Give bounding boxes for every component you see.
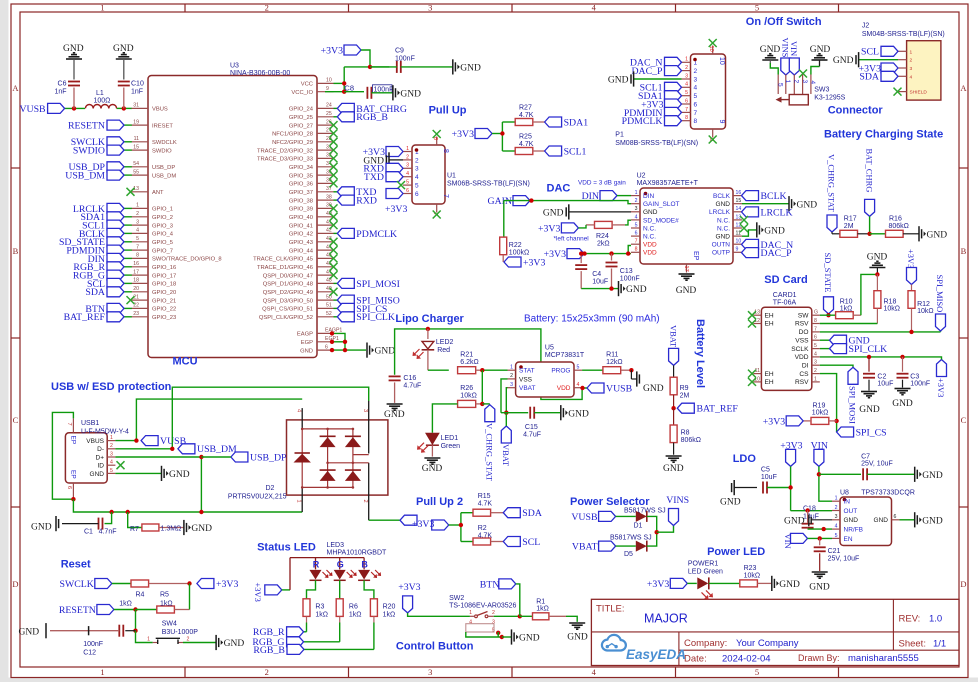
svg-text:100kΩ: 100kΩ: [509, 250, 529, 257]
ground GND (C16): [384, 404, 405, 420]
node DP tap: [199, 510, 203, 514]
resistor R2: [473, 525, 503, 545]
svg-text:TS-1086EV-AR03526: TS-1086EV-AR03526: [449, 603, 516, 610]
svg-text:U2: U2: [637, 172, 646, 179]
power flag +3V3 (pull up): [452, 129, 492, 140]
svg-text:2M: 2M: [844, 223, 854, 230]
svg-text:17: 17: [133, 269, 139, 275]
svg-text:R9: R9: [680, 385, 689, 392]
svg-text:11: 11: [134, 136, 139, 142]
svg-text:GND: GND: [716, 201, 731, 208]
svg-text:2kΩ: 2kΩ: [597, 241, 610, 248]
no-connect U3 pin: [330, 246, 338, 254]
svg-text:GPIO_44: GPIO_44: [289, 248, 314, 254]
label USB w/ ESD protection: [51, 381, 172, 393]
net flag DIN (U3 left): [88, 253, 132, 264]
svg-text:C4: C4: [592, 271, 601, 278]
svg-text:D: D: [12, 579, 18, 589]
svg-text:NR/FB: NR/FB: [844, 527, 864, 534]
svg-text:+3V3: +3V3: [523, 257, 545, 268]
no-connect USB1 ID: [117, 461, 125, 469]
svg-text:VDD = 3 dB gain: VDD = 3 dB gain: [578, 180, 626, 187]
net flag VBAT (level): [668, 325, 678, 365]
wire VIN down: [819, 466, 832, 501]
svg-text:PROG: PROG: [551, 368, 570, 375]
svg-text:TF-06A: TF-06A: [773, 300, 797, 307]
svg-text:GND: GND: [191, 524, 212, 534]
node DM: [170, 447, 174, 451]
node LED2 top: [426, 327, 430, 331]
ground GND flag (R7): [184, 520, 212, 535]
svg-text:MCU: MCU: [173, 356, 198, 368]
svg-text:SDA: SDA: [85, 287, 105, 298]
svg-text:R11: R11: [606, 352, 618, 359]
net flag DIN (U2): [582, 191, 631, 202]
power flag +3V3 (pullup2): [432, 520, 449, 530]
svg-text:6: 6: [406, 188, 409, 194]
svg-text:RSV: RSV: [795, 379, 809, 386]
svg-text:GND: GND: [519, 634, 540, 644]
svg-text:1: 1: [110, 435, 113, 441]
svg-text:REV:: REV:: [899, 614, 921, 625]
net flag GND (card VSS): [820, 335, 870, 346]
svg-text:C21: C21: [828, 548, 841, 555]
node pullup: [500, 131, 504, 135]
svg-text:SPI_CLK: SPI_CLK: [849, 344, 888, 355]
svg-text:4: 4: [694, 85, 698, 92]
node CS-R19: [834, 419, 838, 423]
svg-text:3: 3: [510, 382, 513, 388]
power flag +3V3 (reset): [197, 579, 239, 590]
led POWER1 labels: [688, 561, 723, 576]
svg-text:4.7nF: 4.7nF: [99, 529, 117, 536]
svg-text:R5: R5: [160, 592, 169, 599]
net flag BAT_REF: [677, 403, 738, 414]
svg-text:EH: EH: [765, 379, 774, 386]
connector J2 body: [862, 23, 945, 101]
svg-text:GPIO_22: GPIO_22: [152, 307, 176, 313]
svg-text:GND: GND: [568, 409, 589, 419]
net flag SCL (pullup2): [503, 537, 540, 548]
svg-text:4: 4: [415, 174, 419, 181]
svg-text:R26: R26: [460, 385, 473, 392]
power flag +3V3 (P1): [641, 99, 681, 110]
svg-text:CARD1: CARD1: [773, 292, 797, 299]
svg-text:100nF: 100nF: [395, 56, 415, 63]
label Status LED: [257, 542, 316, 554]
connector U1 pins: [403, 137, 449, 216]
svg-text:1: 1: [136, 203, 139, 209]
svg-text:VSS: VSS: [519, 376, 533, 383]
svg-text:GND: GND: [643, 209, 658, 216]
net flag DAC_N (U2): [742, 239, 794, 250]
ground GND flag (U8 pin6): [915, 512, 943, 527]
svg-text:V_CHRG_STAT: V_CHRG_STAT: [827, 154, 837, 213]
svg-text:VINS: VINS: [666, 495, 689, 506]
svg-text:GND: GND: [797, 200, 818, 210]
led LED2 (red): [413, 329, 454, 370]
svg-text:6: 6: [685, 98, 688, 104]
svg-text:2: 2: [910, 58, 913, 64]
svg-text:OUTN: OUTN: [712, 242, 731, 249]
svg-text:B: B: [361, 560, 368, 570]
svg-text:+3V3: +3V3: [321, 45, 343, 56]
svg-text:GND: GND: [643, 384, 664, 394]
ldo U8 pins: [832, 496, 900, 543]
no-connect U3 pin: [330, 171, 338, 179]
svg-text:806kΩ: 806kΩ: [889, 223, 909, 230]
svg-text:Battery: 15x25x3mm (90 mAh): Battery: 15x25x3mm (90 mAh): [524, 314, 660, 325]
capacitor C4: [575, 251, 608, 288]
resistor R16: [870, 216, 919, 238]
svg-text:GND: GND: [663, 464, 684, 474]
svg-text:5: 5: [415, 183, 419, 190]
svg-text:6: 6: [894, 514, 897, 520]
label Lipo Charger: [395, 313, 464, 325]
ground GND flag (C1): [31, 516, 59, 533]
label Reset: [61, 559, 91, 571]
svg-text:1: 1: [406, 146, 409, 152]
svg-text:GND: GND: [460, 64, 481, 74]
resistor R12: [908, 285, 934, 332]
svg-text:GPIO_41: GPIO_41: [289, 223, 313, 229]
svg-text:CS: CS: [799, 371, 809, 378]
svg-text:VUSB: VUSB: [19, 104, 46, 115]
node EN-C21: [818, 536, 822, 540]
label Battery Charging State: [824, 129, 943, 141]
svg-text:Connector: Connector: [828, 105, 884, 117]
ground GND flag (J2 pin2): [833, 52, 898, 67]
svg-text:10kΩ: 10kΩ: [744, 573, 761, 580]
net flag SPI_CLK (U3 right): [334, 312, 395, 323]
svg-text:55: 55: [133, 169, 139, 175]
svg-text:10: 10: [326, 78, 332, 84]
svg-text:23: 23: [133, 311, 139, 317]
power flag +3V3 (R19): [763, 416, 803, 427]
wire DM net: [115, 387, 368, 449]
svg-text:D1: D1: [634, 523, 643, 530]
capacitor C16: [389, 375, 422, 403]
svg-text:LDO: LDO: [733, 453, 757, 465]
no-connect U2 pin13: [740, 216, 748, 224]
capacitor C13: [606, 254, 640, 289]
no-connect U3 pin: [330, 163, 338, 171]
svg-text:GAIN: GAIN: [488, 196, 513, 207]
svg-text:6: 6: [415, 191, 419, 198]
svg-text:4: 4: [406, 171, 409, 177]
node EP bottom: [71, 497, 75, 501]
svg-text:+3V3: +3V3: [647, 579, 669, 590]
svg-text:SCL: SCL: [522, 537, 540, 548]
svg-text:+3V3: +3V3: [906, 249, 916, 268]
svg-text:NFC2/GPIO_29: NFC2/GPIO_29: [272, 140, 313, 146]
svg-text:BAT_CHRG: BAT_CHRG: [864, 149, 874, 193]
svg-text:9: 9: [718, 120, 725, 124]
svg-text:VDD: VDD: [795, 354, 809, 361]
svg-text:SPI_CS: SPI_CS: [856, 427, 887, 438]
svg-text:4: 4: [814, 351, 817, 357]
svg-text:GND: GND: [922, 471, 943, 481]
net flag DAC_N (P1): [630, 57, 682, 68]
net flag SPI_CLK (card): [820, 344, 887, 355]
wire U2 GND11: [742, 230, 756, 236]
svg-text:GPIO_17: GPIO_17: [152, 273, 176, 279]
svg-text:QSPI_D1/GPIO_48: QSPI_D1/GPIO_48: [263, 282, 313, 288]
svg-text:VINS: VINS: [780, 38, 790, 58]
node BAT_REF: [671, 406, 675, 410]
svg-text:C5: C5: [761, 467, 770, 474]
net flag VUSB: [19, 103, 64, 114]
svg-text:100nF: 100nF: [83, 641, 103, 648]
svg-text:C7: C7: [861, 453, 870, 460]
svg-text:GND: GND: [31, 523, 52, 533]
svg-text:1: 1: [147, 637, 150, 643]
svg-text:On /Off Switch: On /Off Switch: [746, 16, 822, 28]
dac U2 body: [637, 172, 733, 264]
svg-text:Battery Charging State: Battery Charging State: [824, 129, 943, 141]
svg-text:5: 5: [777, 83, 784, 87]
no-connect U2 pin12: [740, 224, 748, 232]
net flag PDMDIN (P1): [624, 107, 682, 118]
wire led3 anode rail: [282, 558, 364, 590]
svg-text:1.3MΩ: 1.3MΩ: [161, 526, 182, 533]
svg-text:R21: R21: [460, 351, 473, 358]
ground GND flag (C7): [915, 467, 943, 482]
svg-text:N.C.: N.C.: [643, 234, 656, 241]
svg-text:GND: GND: [892, 399, 913, 409]
node DP: [199, 455, 203, 459]
net flag SPI_CS (U3 right): [334, 303, 388, 314]
svg-text:GND: GND: [720, 498, 741, 508]
svg-text:EH: EH: [765, 312, 774, 319]
svg-text:4: 4: [809, 81, 816, 85]
svg-text:100nF: 100nF: [910, 381, 930, 388]
svg-text:+3V3: +3V3: [763, 416, 785, 427]
svg-text:3: 3: [136, 219, 139, 225]
svg-text:RSV: RSV: [795, 321, 809, 328]
svg-text:GND: GND: [764, 227, 785, 237]
switch SW2: [466, 610, 495, 634]
svg-text:SWDCLK: SWDCLK: [152, 140, 177, 146]
net flag RESETN (U3 left): [68, 120, 132, 131]
label LDO: [733, 453, 757, 465]
svg-text:C13: C13: [620, 268, 633, 275]
svg-text:4: 4: [110, 460, 113, 466]
resistor R24: [586, 220, 631, 247]
svg-text:8: 8: [814, 318, 817, 324]
svg-text:SDA: SDA: [859, 72, 879, 83]
ground GND flag (U3 bottom): [367, 343, 395, 358]
svg-text:GND: GND: [90, 471, 105, 478]
net flag SWCLK (U3 left): [71, 137, 132, 148]
svg-text:1/1: 1/1: [933, 639, 946, 650]
net flag SPI_MISO (card): [935, 275, 945, 332]
svg-text:7: 7: [442, 194, 449, 198]
svg-text:ID: ID: [98, 463, 105, 470]
led POWER1: [687, 577, 739, 599]
svg-text:7: 7: [694, 110, 698, 117]
power flag +3V3 (U2 VDD): [544, 249, 584, 260]
svg-text:R7: R7: [130, 526, 139, 533]
net flag VBAT (lipo): [501, 413, 511, 467]
svg-text:GPIO_43: GPIO_43: [289, 240, 313, 246]
ground GND flag (U2 pin3): [543, 204, 631, 219]
svg-text:GPIO_39: GPIO_39: [289, 207, 313, 213]
wire C4-C13 gnd: [581, 286, 618, 290]
svg-text:3: 3: [415, 166, 419, 173]
svg-text:R22: R22: [509, 242, 522, 249]
svg-text:Sheet:: Sheet:: [899, 639, 926, 650]
svg-text:10kΩ: 10kΩ: [884, 305, 901, 312]
net flag BAT_CHRG (divider): [864, 149, 874, 234]
svg-text:OUTP: OUTP: [712, 250, 730, 257]
ground GND flag (R23): [772, 576, 800, 591]
power flag +3V3 (LDO): [780, 441, 802, 467]
label Pull Up 2: [416, 496, 463, 508]
wire VDD row: [820, 356, 940, 358]
wire pullup2: [449, 513, 474, 542]
svg-text:1kΩ: 1kΩ: [383, 612, 396, 619]
net flag RXD (U3 right): [334, 195, 377, 206]
svg-text:GND: GND: [833, 56, 854, 66]
capacitor C12: [50, 625, 136, 657]
svg-text:G: G: [337, 560, 344, 570]
net flag VUSB (selector): [571, 511, 615, 522]
no-connect U3 pin: [330, 138, 338, 146]
resistor R9: [670, 365, 689, 408]
svg-text:51: 51: [326, 303, 332, 309]
svg-text:TPS73733DCQR: TPS73733DCQR: [861, 489, 915, 496]
svg-text:18: 18: [133, 278, 139, 284]
svg-text:5: 5: [685, 90, 688, 96]
svg-text:2: 2: [265, 667, 269, 677]
svg-text:1: 1: [296, 500, 302, 503]
power flag +3V3 (card VDD): [936, 357, 946, 398]
svg-text:+3V3: +3V3: [398, 582, 420, 593]
no-connect U3 pin: [330, 238, 338, 246]
svg-text:2: 2: [362, 500, 368, 503]
svg-text:25: 25: [326, 111, 332, 117]
svg-text:U8: U8: [840, 489, 849, 496]
svg-text:1: 1: [635, 190, 638, 196]
svg-text:2: 2: [415, 157, 419, 164]
svg-text:GPIO_1: GPIO_1: [152, 207, 173, 213]
svg-text:RXD: RXD: [356, 196, 377, 207]
svg-text:2: 2: [406, 154, 409, 160]
wire VDD rail: [584, 246, 631, 254]
svg-text:GPIO_38: GPIO_38: [289, 198, 313, 204]
ground GND flag (C5): [720, 480, 757, 508]
label Battery Level: [694, 319, 706, 388]
svg-text:3: 3: [910, 66, 913, 72]
svg-text:3: 3: [694, 76, 698, 83]
capacitor C7: [819, 453, 914, 480]
node VDD-C2: [867, 355, 871, 359]
no-connect U3 pin: [330, 263, 338, 271]
svg-text:EAGP: EAGP: [297, 332, 313, 338]
svg-text:SD_STATE: SD_STATE: [823, 253, 833, 293]
diode D1: [616, 508, 666, 533]
resistor R19: [803, 403, 836, 425]
svg-text:R19: R19: [813, 403, 826, 410]
no-connect U3 pin: [330, 146, 338, 154]
wire U8 gnd6: [900, 519, 915, 521]
svg-text:U-F-M5DW-Y-4: U-F-M5DW-Y-4: [81, 428, 129, 435]
svg-text:EP: EP: [692, 251, 699, 261]
power flag +3V3 (D2): [400, 515, 434, 530]
ground GND (R1): [567, 623, 588, 643]
net flag SWCLK (reset): [60, 579, 112, 590]
svg-text:TRACE_D3/GPIO_33: TRACE_D3/GPIO_33: [257, 157, 313, 163]
svg-text:GND: GND: [300, 348, 313, 354]
svg-text:VBAT: VBAT: [501, 444, 511, 467]
power flag +3V3 (U1 pin6): [385, 189, 407, 216]
svg-text:SCLK: SCLK: [791, 346, 809, 353]
ground GND (C3): [892, 389, 913, 410]
svg-text:8: 8: [694, 118, 698, 125]
connector P1 pins: [682, 46, 726, 142]
svg-text:Red: Red: [437, 347, 450, 354]
svg-text:IRESET: IRESET: [152, 123, 173, 129]
svg-text:R10: R10: [840, 298, 853, 305]
svg-text:6: 6: [635, 231, 638, 237]
svg-text:LED1: LED1: [441, 435, 459, 442]
net flag LRCLK (U2): [742, 207, 793, 218]
svg-text:10kΩ: 10kΩ: [917, 308, 934, 315]
node VBUS: [134, 438, 138, 442]
switch SW4: [136, 621, 216, 645]
node R26 out: [480, 402, 484, 406]
net flag USB_DP: [201, 452, 287, 463]
svg-text:+3V3: +3V3: [452, 129, 474, 140]
svg-text:9: 9: [736, 247, 739, 253]
svg-text:C: C: [13, 415, 19, 425]
wire VUSB input net: [65, 107, 132, 109]
svg-text:10: 10: [718, 57, 725, 65]
resistor R3: [303, 599, 328, 632]
svg-text:RESETN: RESETN: [59, 605, 96, 616]
connector U1 body: [412, 145, 530, 204]
svg-text:LED3: LED3: [327, 542, 345, 549]
svg-text:15: 15: [133, 144, 139, 150]
svg-text:SWDIO: SWDIO: [152, 148, 172, 154]
svg-text:VCC: VCC: [301, 82, 313, 88]
svg-text:+3V3: +3V3: [780, 441, 802, 452]
label Power LED: [707, 546, 765, 558]
svg-text:PDMCLK: PDMCLK: [622, 116, 663, 127]
svg-text:USB_DP: USB_DP: [250, 452, 287, 463]
resistor R1: [520, 599, 577, 622]
svg-text:USB_DM: USB_DM: [197, 444, 237, 455]
svg-text:2: 2: [685, 65, 688, 71]
net flag BAT_CHRG (U3 right): [334, 103, 407, 114]
svg-text:C12: C12: [83, 650, 96, 657]
no-connect U3 pin: [330, 271, 338, 279]
svg-text:VIN: VIN: [811, 441, 828, 452]
svg-text:4: 4: [592, 667, 597, 677]
svg-text:6: 6: [66, 486, 72, 489]
svg-text:QSPI_D3/GPIO_50: QSPI_D3/GPIO_50: [263, 298, 313, 304]
ldo U8 body: [840, 489, 915, 545]
led LED3 labels: [327, 542, 388, 557]
svg-text:TRACE_CLK/GPIO_45: TRACE_CLK/GPIO_45: [253, 257, 313, 263]
svg-text:14: 14: [736, 206, 742, 212]
wire RESETN net: [114, 609, 136, 611]
svg-text:PRTR5V0U2X,215: PRTR5V0U2X,215: [228, 494, 287, 501]
svg-text:BAT_REF: BAT_REF: [697, 404, 739, 415]
net flag SD_STATE (U3 left): [59, 237, 132, 248]
svg-text:10: 10: [736, 239, 742, 245]
